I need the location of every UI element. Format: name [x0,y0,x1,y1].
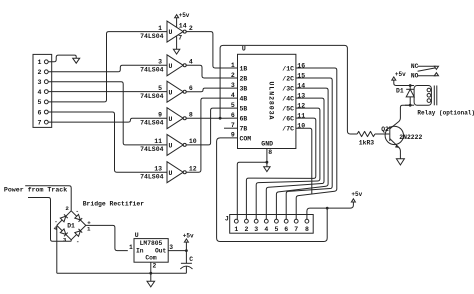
wire bridge + to LM7805 In [86,225,128,250]
ground (U3 Com) [147,281,155,287]
svg-text:Q2: Q2 [381,126,389,133]
svg-text:9: 9 [158,111,162,118]
connector P1 pin 3 number label [38,79,42,86]
inverter U1E input pin 11 label [154,138,162,145]
svg-text:U: U [169,116,173,123]
svg-text:6: 6 [231,112,235,119]
wire +5v to relay coil top rail [394,80,414,85]
bridge minus mark bottom [76,238,79,245]
U3 pin 1 number [129,244,133,251]
junction Com/ground rail node [149,272,152,275]
svg-text:/4C: /4C [282,96,294,103]
svg-text:3: 3 [38,79,42,86]
transistor Q2 value 2N2222 [399,134,422,141]
svg-text:3: 3 [63,236,67,243]
wire U2 /7C output vertical [296,128,312,194]
connector J pin 4 number [264,226,268,233]
transistor Q2 base bar [389,126,391,141]
connector P1 pin 5 circle [44,100,48,104]
U2 pin name /1C [282,65,294,72]
wire +5v to J pin 8 [307,202,354,219]
connector P1 pin 6 number label [38,109,42,116]
connector P1 pin 7 circle [44,120,48,124]
svg-text:11: 11 [154,138,162,145]
connector P1 pin 2 circle [44,70,48,74]
U2 COM pin name [240,135,252,142]
svg-text:5: 5 [38,99,42,106]
wire pin4 to U1C input [48,91,167,93]
inverter U1B input pin 3 label [158,59,162,66]
connector J pin 3 number [254,226,258,233]
U2 pin name 2B [240,75,248,82]
+5v power node (U1A pin 14) [175,12,190,19]
regulator U3 LM7805 body [134,239,168,263]
inverter U1F 74LS04 triangle [167,162,186,183]
bridge plus mark [87,219,91,226]
+5v power node (U3 out) [183,232,194,242]
inverter U1E refdes U [169,143,173,150]
connector P1 pin 5 number label [38,99,42,106]
relay contact NO line [418,75,437,77]
svg-text:+5v: +5v [179,12,190,19]
ground (Q2 emitter) [396,159,404,165]
inverter U1C refdes U [169,89,173,96]
ground (U1A pin 7) [173,49,179,54]
relay contact NC symbol [434,66,438,69]
svg-text:1: 1 [231,62,235,69]
connector P1 pin 7 number label [38,119,42,126]
U2 pin name 6B [240,116,248,123]
inverter U1B output pin 4 label [189,59,193,66]
connector J pin 8 number [305,226,309,233]
diode D1 (flyback) [406,86,414,106]
svg-text:D1: D1 [67,222,75,229]
inverter U1B refdes U [169,63,173,70]
connector P1 pin 6 circle [44,110,48,114]
inverter U1A output pin 2 label [189,25,193,32]
U3 pin name In [136,248,144,255]
svg-text:3: 3 [158,59,162,66]
inverter U1A input pin 1 label [158,25,162,32]
inverter U1D 74LS04 triangle [167,108,186,129]
inverter U1A value label 74LS04 [140,33,164,40]
wire U2 output to J pin 2 [246,118,315,219]
inverter U1D value label 74LS04 [140,120,164,127]
svg-text:7: 7 [178,35,182,42]
+5v power node (relay) [392,71,406,80]
connector J pin 1 circle [234,219,238,223]
bridge pin 1 label [87,226,91,233]
svg-text:Bridge Rectifier: Bridge Rectifier [83,200,145,207]
ground (connector pin 1) [73,58,80,63]
relay pole arm [418,68,436,71]
svg-text:2: 2 [153,263,157,270]
svg-text:3: 3 [169,244,173,251]
wire U2 output to J pin 5 [276,88,328,219]
U2 COM pin 9 number [231,132,235,139]
ground (U2 pin 8) [264,167,270,172]
connector J refdes [225,216,229,223]
svg-text:/2C: /2C [282,75,294,82]
svg-text:3B: 3B [240,86,248,93]
bridge pin 2 label [65,205,69,212]
svg-text:3: 3 [254,226,258,233]
inverter U1D output pin 8 label [189,111,193,118]
U2 GND pin 8 number [268,149,272,156]
wire U1A out to ULN 1B [186,32,237,68]
transistor Q2 collector lead [390,105,410,129]
U2 GND pin name [261,141,273,148]
svg-text:1: 1 [87,226,91,233]
pin 7 label [178,35,182,42]
U2 pin name /3C [282,86,294,93]
svg-text:1: 1 [158,25,162,32]
connector J pin 1 number [234,226,238,233]
svg-text:74LS04: 74LS04 [140,146,164,153]
regulator U3 refdes U [135,232,139,239]
svg-text:NO: NO [411,73,419,80]
wire pin7 to U1D input [48,118,167,122]
wire U2 output to J pin 7 [296,68,337,219]
bridge D1 refdes [67,222,75,229]
connector P1 pin 1 number label [38,59,42,66]
U2 pin 11 number [297,113,305,120]
svg-text:7B: 7B [240,126,248,133]
svg-text:U: U [169,89,173,96]
bridge rectifier D1 diode L-B [57,225,71,239]
relay contact NO symbol [434,73,438,76]
U2 pin name 4B [240,96,248,103]
wire pin3 to U1E input [48,82,167,145]
inverter U1C 74LS04 triangle [167,81,186,102]
svg-text:6B: 6B [240,116,248,123]
junction GND node [266,161,269,164]
bridge rectifier D1 diode L-T [57,211,71,226]
U2 pin 16 number [297,63,305,70]
wire +5v arrow stem [185,242,187,250]
U2 pin 4 number [231,92,235,99]
U2 pin 3 number [231,82,235,89]
svg-text:U: U [169,29,173,36]
svg-text:14: 14 [179,22,187,29]
U2 pin name /2C [282,75,294,82]
wire pin1 to ground [48,55,76,62]
transistor Q2 circle [385,126,403,144]
resistor R3 1k [357,131,375,136]
svg-text:/7C: /7C [282,126,294,133]
relay K1 core lines [434,86,437,106]
svg-text:12: 12 [189,165,197,172]
svg-text:U: U [242,46,246,53]
capacitor C plate top [181,262,192,264]
U2 pin name /5C [282,106,294,113]
svg-text:74LS04: 74LS04 [140,174,164,181]
inverter U1D refdes U [169,116,173,123]
connector J pin 2 circle [245,219,249,223]
U3 pin name Com [145,254,157,261]
U2 pin 5 number [231,102,235,109]
U2 pin 7B stub (n.c.) [224,127,238,129]
net label Power from Track [4,187,67,194]
connector P1 pin 4 number label [38,89,42,96]
wire GND node to ground symbol [266,162,268,167]
U2 pin 13 number [297,93,305,100]
svg-text:U: U [169,63,173,70]
svg-text:Com: Com [145,254,157,261]
inverter U1E output pin 10 label [189,138,197,145]
svg-text:6: 6 [189,85,193,92]
svg-text:74LS04: 74LS04 [140,93,164,100]
bridge minus mark top [76,208,79,215]
wire bridge - to ground rail [56,225,58,273]
svg-text:ULN2803A: ULN2803A [268,82,275,121]
svg-text:1kR3: 1kR3 [359,140,375,147]
regulator U3 value LM7805 [140,240,163,247]
svg-text:U: U [169,143,173,150]
svg-text:6: 6 [284,226,288,233]
inverter U1F output pin 12 label [189,165,197,172]
svg-text:2: 2 [244,226,248,233]
wire pin6 to U1F input [48,112,167,172]
U2 pin name /4C [282,96,294,103]
svg-text:+5v: +5v [395,71,406,78]
wire U1E out to ULN 5B [186,108,237,145]
wire U1F out to ULN 4B [186,98,237,172]
junction D1 cathode-bottom node [409,104,412,107]
svg-text:4: 4 [189,59,193,66]
U2 pin name 1B [240,65,248,72]
svg-text:+5v: +5v [183,232,194,239]
U2 pin 14 number [297,83,305,90]
U2 pin name /7C [282,126,294,133]
svg-text:8: 8 [189,111,193,118]
bridge rectifier D1 diode T-R [71,211,86,226]
connector P1 pin 1 circle [44,60,48,64]
relay label Relay (optional) [417,110,474,117]
svg-text:4: 4 [264,226,268,233]
svg-text:7: 7 [38,119,42,126]
svg-text:2B: 2B [240,75,248,82]
wire R3 to Q2 base [375,133,389,135]
svg-text:LM7805: LM7805 [140,240,163,247]
svg-text:2: 2 [189,25,193,32]
svg-text:2N2222: 2N2222 [399,134,422,141]
U2 pin 12 number [297,103,305,110]
U2 pin 7 number [231,122,235,129]
wire U2 output to J pin 6 [286,78,332,219]
connector J pin 6 circle [284,219,288,223]
svg-text:Power from Track: Power from Track [4,187,67,194]
connector P1 pin 2 number label [38,69,42,76]
connector J output header [230,215,314,234]
svg-text:In: In [136,248,144,255]
inverter U1B value label 74LS04 [140,67,164,74]
svg-text:Relay (optional): Relay (optional) [417,110,474,117]
svg-text:74LS04: 74LS04 [140,33,164,40]
svg-text:5: 5 [231,102,235,109]
connector J pin 5 circle [275,219,279,223]
svg-text:2: 2 [38,69,42,76]
U2 pin name 7B [240,126,248,133]
inverter U1D input pin 9 label [158,111,162,118]
U2 pin 1 number [231,62,235,69]
bridge rectifier D1 diode B-R [71,225,86,239]
wire U2 COM to +5v loop [217,138,328,242]
relay contact NC line [418,65,437,67]
svg-text:/1C: /1C [282,65,294,72]
svg-text:8: 8 [268,149,272,156]
transistor Q2 emitter lead [390,139,401,159]
U2 pin 10 number [297,123,305,130]
svg-text:1B: 1B [240,65,248,72]
svg-text:J: J [225,216,229,223]
transistor Q2 emitter arrow [395,145,399,148]
driver U2 refdes U [242,46,246,53]
relay label NO [411,73,419,80]
wire U2 GND stub [266,149,268,163]
connector J pin 4 circle [264,219,268,223]
inverter U1C output pin 6 label [189,85,193,92]
svg-text:U: U [169,170,173,177]
svg-text:4B: 4B [240,96,248,103]
svg-text:C: C [189,256,193,263]
svg-text:-: - [54,218,57,225]
label Bridge Rectifier [83,200,145,207]
wire U3 Out to +5v node [168,250,186,252]
svg-text:4: 4 [38,89,42,96]
svg-text:2: 2 [65,205,69,212]
U2 pin name 5B [240,106,248,113]
wire relay drive (6B node to R3) [220,45,357,134]
wire pin5 to U1A input [48,32,167,102]
+5v power node (J8) [351,191,362,202]
inverter U1F value label 74LS04 [140,174,164,181]
connector J pin 6 number [284,226,288,233]
svg-text:NC: NC [411,63,419,70]
svg-text:1: 1 [38,59,42,66]
inverter U1A refdes U [169,29,173,36]
inverter U1E 74LS04 triangle [167,134,186,155]
wire U2 output to J pin 4 [266,98,324,219]
U3 pin 3 number [169,244,173,251]
U2 pin name 3B [240,86,248,93]
connector P1 pin 3 circle [44,80,48,84]
U3 pin 2 number [153,263,157,270]
inverter U1C input pin 5 label [158,85,162,92]
svg-text:/6C: /6C [282,116,294,123]
wire track AC1 to bridge top [25,186,71,211]
resistor R3 value label 1kR3 [359,140,375,147]
driver U2 value ULN2803A (vertical) [268,82,275,121]
svg-text:2: 2 [231,72,235,79]
svg-text:1: 1 [129,244,133,251]
wire pin2 to U1B input [48,65,167,72]
wire capacitor C to ground rail [185,266,187,273]
inverter U1C value label 74LS04 [140,93,164,100]
svg-text:/3C: /3C [282,86,294,93]
svg-text:13: 13 [154,165,162,172]
connector P1 pin 4 circle [44,90,48,94]
wire +5v node to capacitor C [185,251,187,264]
svg-text:COM: COM [240,135,252,142]
bridge pin 3 label [63,236,67,243]
wire U1D out to ULN 6B [186,117,237,119]
U3 pin name Out [155,248,167,255]
capacitor C plate bottom (curved) [180,266,192,269]
svg-text:10: 10 [189,138,197,145]
connector J pin 2 number [244,226,248,233]
U2 pin name /6C [282,116,294,123]
svg-text:7: 7 [294,226,298,233]
connector J pin 3 circle [254,219,258,223]
svg-text:+5v: +5v [351,191,362,198]
svg-text:74LS04: 74LS04 [140,120,164,127]
diode D1 refdes [396,88,404,95]
junction +5v/COM loop node [326,207,329,210]
svg-text:5B: 5B [240,106,248,113]
bridge pin 4 label [54,225,58,232]
wire U3 Com to ground [150,262,152,281]
pin 14 label [179,22,187,29]
svg-text:Out: Out [155,248,167,255]
svg-text:74LS04: 74LS04 [140,67,164,74]
junction D1 anode-top node [409,84,412,87]
svg-text:-: - [76,208,79,215]
wire ground rail [57,272,187,274]
svg-text:GND: GND [261,141,273,148]
U2 pin 2 number [231,72,235,79]
svg-text:U: U [135,232,139,239]
svg-text:4: 4 [231,92,235,99]
capacitor C value label [189,256,193,263]
wire U2 output to J pin 3 [256,108,320,219]
svg-text:5: 5 [274,226,278,233]
connector J pin 7 circle [294,219,298,223]
wire U1C out to ULN 3B [186,88,237,92]
wire track AC2 to bridge bottom [28,198,71,242]
relay label NC [411,63,419,70]
inverter U1F refdes U [169,170,173,177]
connector P1 (track input header, pins 1-7) [33,54,52,127]
transistor Q2 refdes [381,126,389,133]
svg-text:6: 6 [38,109,42,116]
wire U1A pin 7 to ground [176,36,178,49]
wire GND to J pin 1 [237,162,267,219]
wire relay coil bottom rail [405,104,414,106]
svg-text:1: 1 [234,226,238,233]
svg-text:D1: D1 [396,88,404,95]
connector J pin 5 number [274,226,278,233]
bridge minus mark left [54,218,57,225]
svg-text:5: 5 [158,85,162,92]
connector J pin 7 number [294,226,298,233]
inverter U1F input pin 13 label [154,165,162,172]
U2 pin 15 number [297,73,305,80]
inverter U1B 74LS04 triangle [167,55,186,76]
driver U2 ULN2803A body [238,54,296,148]
junction +5v out node [185,249,188,252]
inverter U1E value label 74LS04 [140,146,164,153]
inverter U1A 74LS04 triangle [167,21,186,42]
relay K1 coil loops [427,88,431,102]
svg-text:8: 8 [305,226,309,233]
svg-text:/5C: /5C [282,106,294,113]
relay K1 coil box [414,86,431,106]
wire U1A pin 14 to +5v [176,18,178,27]
connector J pin 8 circle [305,219,309,223]
junction 6B/relay drive node [219,117,222,120]
svg-text:-: - [76,238,79,245]
